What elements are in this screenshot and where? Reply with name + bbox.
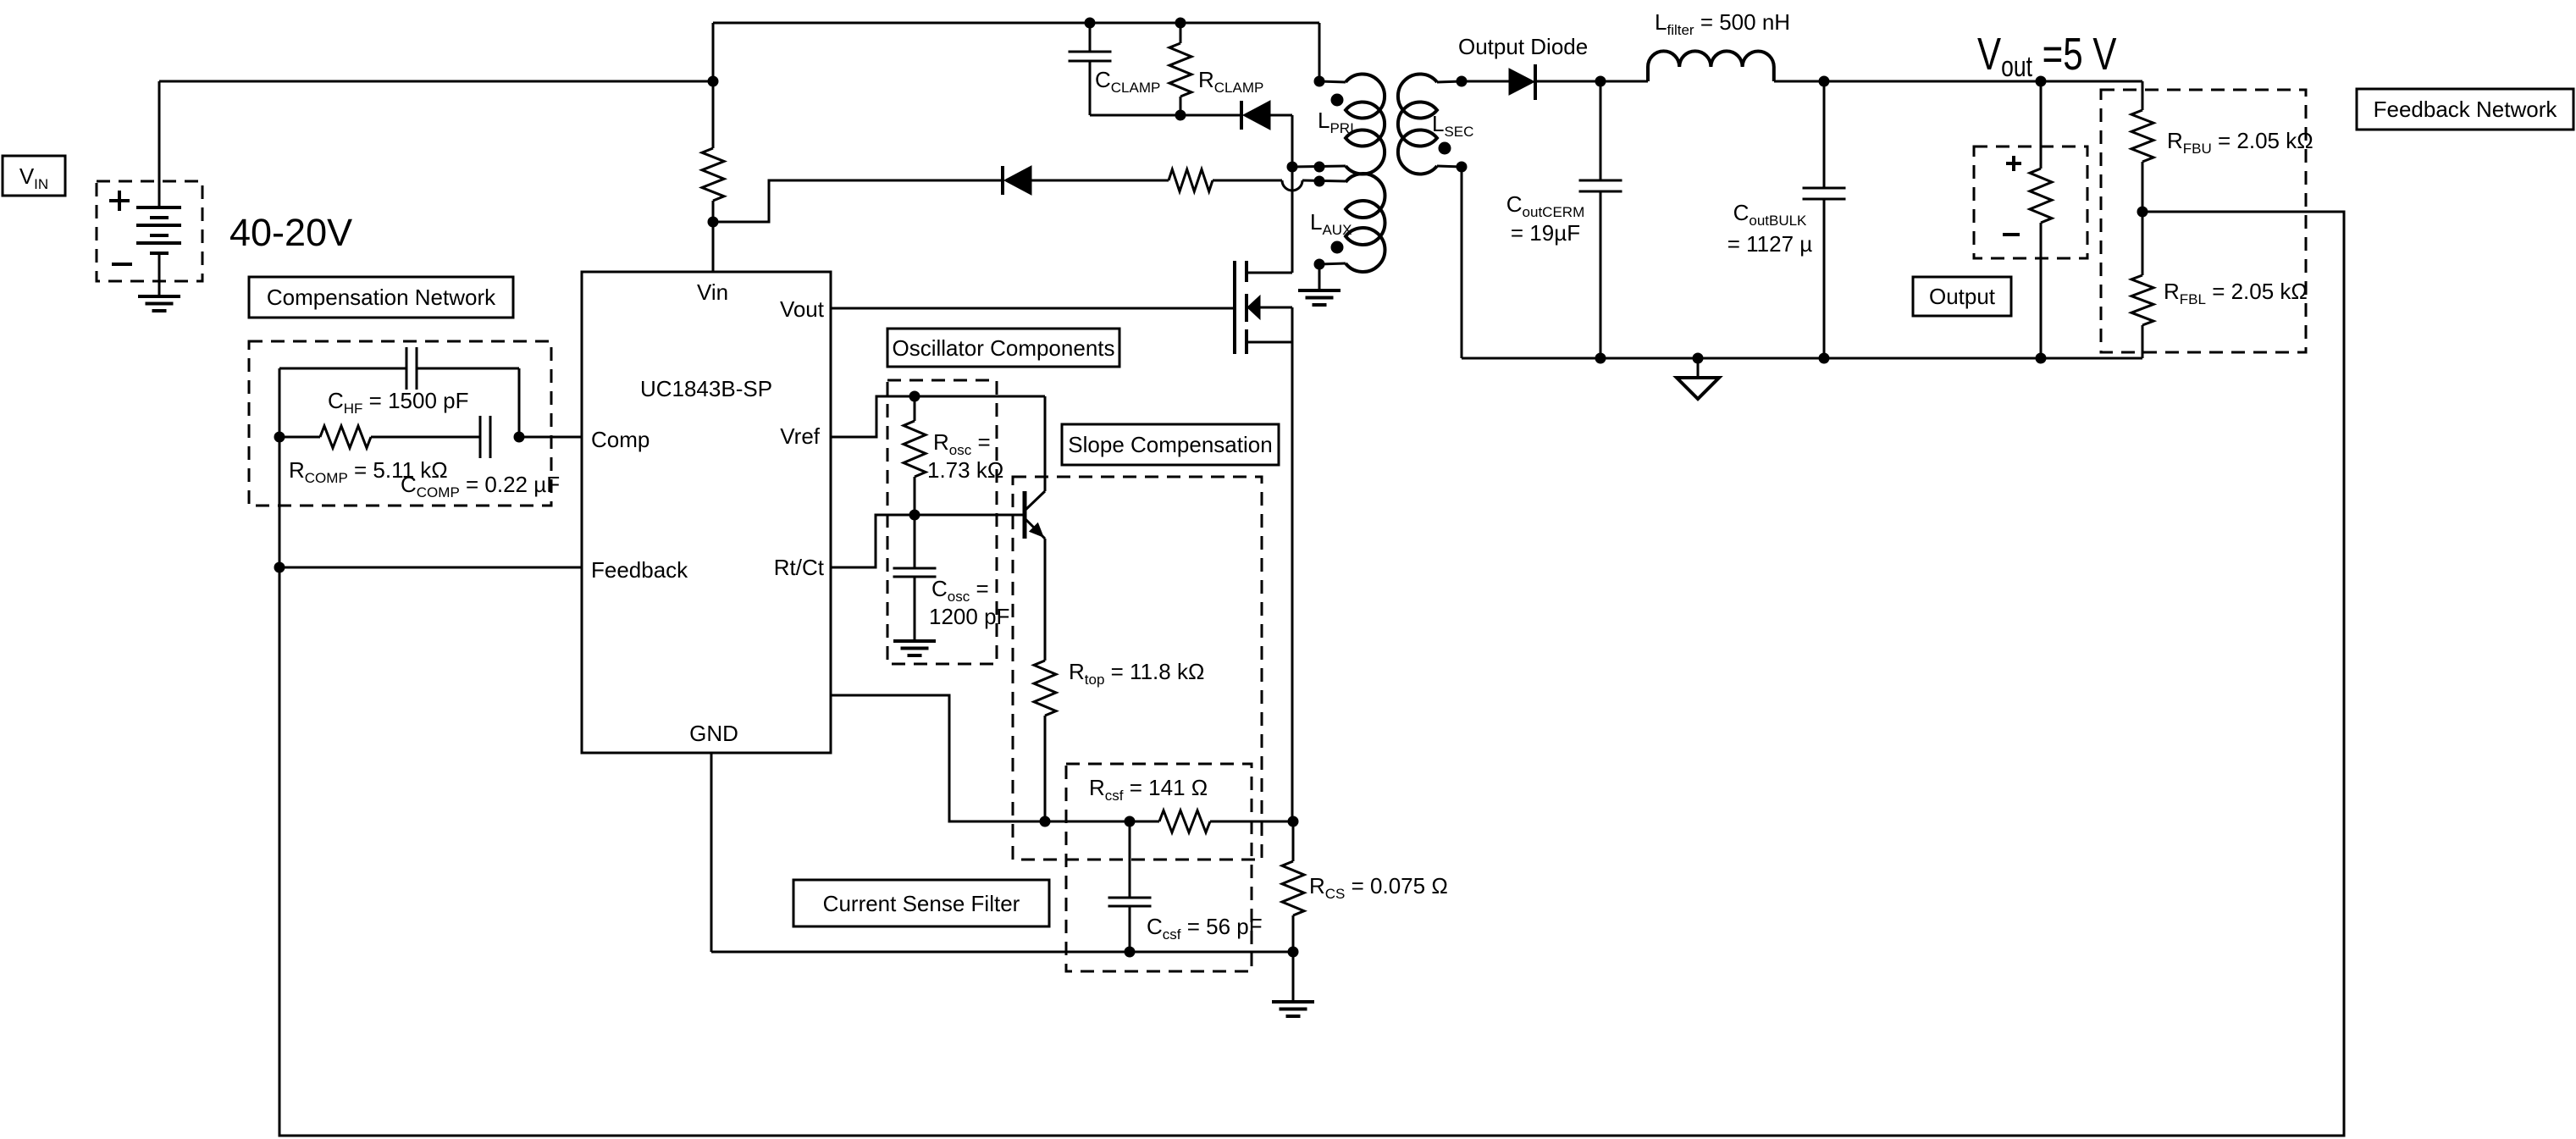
wire bootstrap to aux winding with hop over drain wire (1213, 180, 1346, 191)
wire primary top feed (1319, 23, 1346, 82)
label box Feedback Network (2357, 89, 2573, 130)
wire gate drive from Vout pin (831, 307, 1235, 310)
label box Slope Compensation (1062, 424, 1279, 465)
label box Output (1913, 277, 2011, 316)
junction secondary top (1457, 76, 1467, 86)
text Rosc value line2 (927, 457, 1003, 483)
junction Rosc top (909, 391, 920, 401)
text Vout pin (780, 296, 825, 322)
ground battery (138, 296, 180, 311)
text CCOMP value (401, 472, 560, 500)
text RFBL value (2164, 279, 2308, 307)
resistor Rcsf (1159, 810, 1210, 832)
junction Ccsf top (1125, 816, 1135, 827)
junction primary bottom drain (1287, 162, 1297, 172)
text 40-20V (229, 211, 352, 254)
svg-text:Vref: Vref (780, 423, 820, 449)
svg-text:Slope Compensation: Slope Compensation (1068, 432, 1272, 457)
svg-text:Feedback Network: Feedback Network (2374, 97, 2558, 122)
junction comp output (514, 432, 524, 442)
text LPRI (1318, 108, 1354, 136)
wire feedback return (279, 212, 2344, 1136)
text CoutBULK value line1 (1733, 200, 1807, 229)
junction primary bottom (1314, 162, 1324, 172)
wire Rosc top to transistor collector (915, 396, 1045, 491)
capacitor CoutCERM (1579, 81, 1622, 358)
resistor RCS current sense (1282, 821, 1304, 952)
resistor RCLAMP (1169, 23, 1191, 115)
wire divider mid (2142, 212, 2144, 275)
text CCLAMP (1095, 67, 1160, 96)
capacitor Ccsf (1108, 821, 1152, 952)
phase dot LPRI (1331, 94, 1343, 106)
junction comp node (274, 432, 285, 442)
wire ISense pin path (831, 695, 1045, 821)
text RCLAMP (1198, 67, 1263, 96)
wire secondary top (1437, 81, 1509, 82)
wire feedback node to Feedback pin (279, 567, 582, 569)
inductor LPRI primary winding (1346, 75, 1385, 174)
node VIN supply rail wire (battery top to Vin divider) (159, 81, 713, 207)
diode output (anode left) (1509, 64, 1535, 100)
text Vref pin (780, 423, 820, 449)
text RtCt pin (774, 555, 825, 580)
wire CHF branch (279, 368, 519, 437)
junction RtCt node (909, 510, 920, 520)
svg-text:Oscillator Components: Oscillator Components (893, 335, 1115, 361)
text Rosc value line1 (933, 429, 991, 458)
junction secondary bottom (1457, 162, 1467, 172)
diode bootstrap (cathode left) (1003, 166, 1169, 195)
wire Vin feed down to UC1843B Vin pin (712, 81, 715, 272)
ground Cosc (893, 641, 936, 655)
wire Rtop to current sense node (1044, 716, 1047, 821)
junction aux bottom (1314, 259, 1324, 269)
capacitor CCLAMP (1069, 23, 1112, 115)
battery plus sign (109, 191, 130, 211)
text RFBU value (2167, 128, 2313, 157)
junction Ccsf bottom (1125, 947, 1135, 957)
junction CoutBULK bottom (1819, 353, 1829, 363)
junction Rcs top node (1288, 816, 1298, 827)
inductor LSEC secondary winding (1398, 75, 1437, 174)
svg-text:Compensation Network: Compensation Network (267, 285, 496, 310)
junction clamp res top (1175, 18, 1186, 28)
label box Current Sense Filter (793, 880, 1049, 926)
junction load top (2036, 76, 2046, 86)
svg-text:Comp: Comp (591, 427, 650, 452)
transistor Q1 MOSFET (1235, 261, 1292, 354)
voltage source VIN battery dashed box (97, 181, 202, 281)
junction CoutBULK top (1819, 76, 1829, 86)
feedback dashed box (2101, 90, 2306, 352)
ground current sense (1272, 1002, 1314, 1016)
text Lfilter value (1655, 9, 1790, 38)
current sense filter dashed box (1066, 764, 1252, 971)
svg-text:1.73 kΩ: 1.73 kΩ (927, 457, 1003, 483)
label box VIN (3, 156, 65, 196)
ground aux winding (1298, 290, 1341, 305)
phase dot LAUX (1331, 241, 1343, 253)
resistor RFBL (2131, 275, 2153, 358)
svg-text:Current Sense Filter: Current Sense Filter (823, 891, 1020, 916)
junction Rcs bottom (1288, 947, 1298, 957)
svg-text:UC1843B-SP: UC1843B-SP (640, 376, 772, 401)
svg-text:40-20V: 40-20V (229, 211, 352, 254)
wire primary bottom (1292, 166, 1346, 167)
capacitor Cosc (893, 515, 937, 641)
junction aux winding top (1314, 176, 1324, 186)
wire to Comp pin (519, 436, 582, 439)
resistor Vin feed (unlabeled) (702, 148, 724, 201)
wire top rail (Vin node to transformer primary top) (713, 23, 1319, 81)
oscillator dashed box (887, 380, 997, 664)
resistor Rtop (1034, 661, 1056, 716)
svg-text:= 1127 µ: = 1127 µ (1727, 231, 1813, 257)
compensation dashed box (249, 341, 551, 506)
text Cosc value line1 (931, 576, 989, 605)
wire Rcs bottom to ground (1292, 952, 1295, 1002)
svg-text:Output: Output (1929, 284, 1996, 309)
text Output Diode label (1458, 34, 1588, 59)
resistor bootstrap (unlabeled) (1169, 169, 1213, 191)
wire GND pin rail (711, 753, 1293, 952)
svg-text:GND: GND (689, 721, 738, 746)
junction CoutCERM bottom (1595, 353, 1606, 363)
inductor Lfilter (1648, 51, 1774, 81)
wire clamp to diode (1180, 114, 1241, 117)
text Feedback pin (591, 557, 688, 583)
junction feedback divider (2137, 207, 2148, 217)
svg-text:Rt/Ct: Rt/Ct (774, 555, 825, 580)
svg-text:Vin: Vin (697, 279, 728, 305)
text Rtop value (1069, 659, 1204, 688)
capacitor CoutBULK (1803, 81, 1846, 358)
junction feedback node (274, 562, 285, 572)
capacitor CHF (406, 347, 417, 390)
wire emitter to Rtop (1044, 539, 1047, 661)
wire Vout rail (1774, 80, 2142, 83)
battery minus sign (112, 263, 132, 266)
load dashed box (1974, 147, 2087, 258)
resistor Rosc (904, 396, 926, 515)
wire secondary bottom down to output ground (1437, 166, 1462, 358)
battery cell plates (136, 207, 181, 296)
svg-text:Output Diode: Output Diode (1458, 34, 1588, 59)
wire RtCt pin jog (831, 515, 915, 567)
text Ccsf value (1147, 914, 1263, 943)
capacitor CCOMP (480, 416, 490, 458)
junction CoutCERM top (1595, 76, 1606, 86)
text Vout voltage (1977, 29, 2117, 83)
diode clamp (cathode left) (1241, 101, 1292, 167)
svg-text:= 19µF: = 19µF (1511, 220, 1580, 246)
wire clamp bottom (1090, 114, 1180, 117)
text LSEC (1432, 111, 1473, 140)
wire csf node (1045, 821, 1159, 823)
text LAUX (1310, 209, 1352, 238)
op-amp U1 UC1843B-SP controller box (582, 272, 831, 753)
text Rcsf value (1089, 775, 1208, 804)
text Comp pin (591, 427, 650, 452)
svg-text:Vout =5 V: Vout =5 V (1977, 29, 2117, 83)
label box Compensation Network (249, 277, 513, 318)
junction Vin pin node (708, 217, 718, 227)
load minus sign (2003, 233, 2020, 236)
resistor load (2030, 81, 2052, 358)
phase dot LSEC (1439, 142, 1451, 154)
svg-text:1200 pF: 1200 pF (929, 604, 1009, 629)
wire Vref pin jog (831, 396, 915, 437)
wire output ground rail (1462, 357, 2142, 360)
wire aux bottom (1319, 263, 1346, 290)
wire bootstrap jog from Vin node (713, 180, 1003, 222)
text CoutCERM value line2 (1511, 220, 1580, 246)
resistor RCOMP (279, 426, 480, 448)
inductor LAUX auxiliary winding (1346, 174, 1385, 272)
text CoutBULK value line2 (1727, 231, 1813, 257)
svg-text:Feedback: Feedback (591, 557, 688, 583)
svg-text:Vout: Vout (780, 296, 825, 322)
ground output (triangle) (1677, 358, 1719, 399)
junction Vin rail (708, 76, 718, 86)
text GND pin (689, 721, 738, 746)
junction clamp cap top (1085, 18, 1095, 28)
text RCOMP value (289, 457, 448, 486)
text UC1843B-SP (640, 376, 772, 401)
wire Vout rail corner to RFBU (2142, 81, 2144, 110)
text Cosc value line2 (929, 604, 1009, 629)
junction primary top (1314, 76, 1324, 86)
junction Rtop bottom (1040, 816, 1050, 827)
wire comp left vertical (279, 368, 281, 567)
text Vin pin (697, 279, 728, 305)
label box Oscillator Components (887, 329, 1119, 367)
load plus sign (2006, 156, 2021, 171)
wire Rcsf to Rcs (1210, 821, 1293, 823)
wire diode to Lfilter (1535, 80, 1648, 83)
transistor Q2 slope comp NPN (1025, 491, 1045, 539)
text CHF value (328, 388, 469, 417)
junction clamp bottom (1175, 110, 1186, 120)
slope compensation dashed box (1013, 477, 1262, 860)
wire RtCt node to base (915, 514, 1025, 517)
junction load bottom (2036, 353, 2046, 363)
text RCS value (1309, 873, 1448, 902)
wire source down to current sense (1291, 342, 1294, 821)
junction output gnd stem (1693, 353, 1703, 363)
text CoutCERM value line1 (1506, 191, 1584, 220)
resistor RFBU (2131, 110, 2153, 212)
wire drain to primary (1291, 167, 1294, 273)
